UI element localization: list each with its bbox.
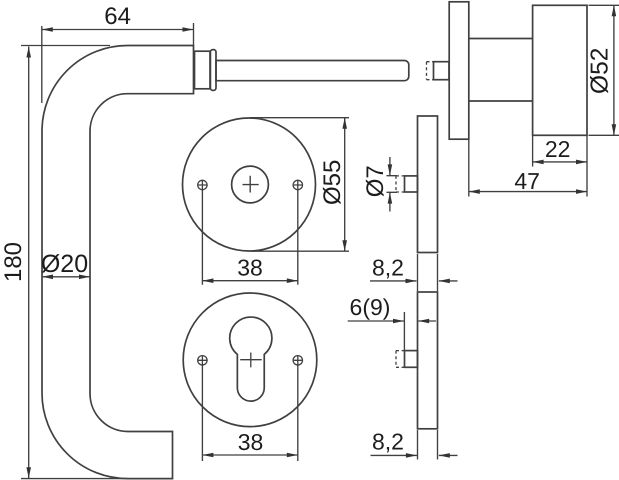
knob rosette plate (side view) xyxy=(449,2,469,139)
lever handle outline xyxy=(42,46,194,479)
knob neck xyxy=(468,39,532,102)
rosette plate 2 (side view lower) xyxy=(418,292,438,429)
svg-text:Ø52: Ø52 xyxy=(586,48,613,94)
dim 8,2 lower arrows xyxy=(406,453,417,458)
dim D55 arrows xyxy=(342,118,347,129)
dim 64 lines xyxy=(42,23,194,103)
svg-text:8,2: 8,2 xyxy=(372,428,404,454)
spindle rod xyxy=(216,61,409,81)
plate 2 hidden spindle (dashed) xyxy=(396,351,405,368)
svg-text:38: 38 xyxy=(238,429,264,455)
rosette 2 cross xyxy=(240,353,262,368)
hidden spindle (dashed) at knob hub xyxy=(427,62,434,80)
dim 38 lower lines xyxy=(202,366,297,462)
dim 38 upper lines xyxy=(202,190,297,285)
svg-text:64: 64 xyxy=(104,3,131,30)
svg-text:47: 47 xyxy=(514,168,540,194)
dim 8,2 lower lines xyxy=(371,430,458,460)
dim 38 upper arrows xyxy=(202,278,213,283)
knob head xyxy=(533,5,587,135)
svg-text:Ø55: Ø55 xyxy=(319,160,346,205)
dim D7 arrows xyxy=(388,164,393,175)
dim D55 lines xyxy=(250,118,349,252)
rosette 2 circle (cylinder rosette) xyxy=(183,293,317,427)
euro profile cylinder hole xyxy=(230,317,272,401)
knob hub square xyxy=(434,62,450,80)
rosette 1 hub circle xyxy=(232,166,269,203)
plate 2 hub square xyxy=(405,351,418,368)
dim 22 arrows xyxy=(533,160,544,165)
plate 1 hidden spindle (dashed) xyxy=(396,176,405,192)
rosette 1 hub cross xyxy=(243,176,259,193)
dim 180 arrows xyxy=(26,47,31,58)
svg-text:22: 22 xyxy=(545,136,571,162)
rosette 2 screw left xyxy=(198,355,207,365)
rosette 1 circle (lever rosette) xyxy=(183,118,316,251)
dim D20 line xyxy=(42,276,90,278)
rosette 2 screw right xyxy=(293,355,302,365)
lever collar xyxy=(195,51,211,89)
dim 8,2 upper lines xyxy=(370,254,458,291)
dim 47 lines xyxy=(469,140,587,197)
plate 1 hub square xyxy=(405,176,418,192)
rosette plate 1 (side view upper) xyxy=(418,116,438,253)
dim 38 lower arrows xyxy=(202,453,213,458)
dim 6(9) arrows xyxy=(393,319,404,324)
dim 22 lines xyxy=(533,136,587,197)
svg-text:38: 38 xyxy=(237,254,263,280)
lever ring xyxy=(210,50,216,91)
svg-text:Ø20: Ø20 xyxy=(41,250,88,278)
dim 64 arrows xyxy=(42,27,53,32)
svg-text:180: 180 xyxy=(0,242,27,282)
dim D52 lines xyxy=(589,5,619,135)
dim 6(9) lines xyxy=(348,312,436,351)
dim 180 lines xyxy=(21,46,127,479)
dim D20 arrows xyxy=(42,275,53,280)
dim D52 arrows xyxy=(612,5,617,16)
dim 8,2 upper arrows xyxy=(406,279,417,284)
svg-text:8,2: 8,2 xyxy=(372,255,404,281)
dim 47 arrows xyxy=(469,189,480,194)
rosette 1 screw left xyxy=(198,180,207,190)
rosette 1 screw right xyxy=(293,180,302,190)
svg-text:Ø7: Ø7 xyxy=(362,165,389,197)
dim D7 lines xyxy=(387,157,398,212)
svg-text:6(9): 6(9) xyxy=(350,294,391,320)
